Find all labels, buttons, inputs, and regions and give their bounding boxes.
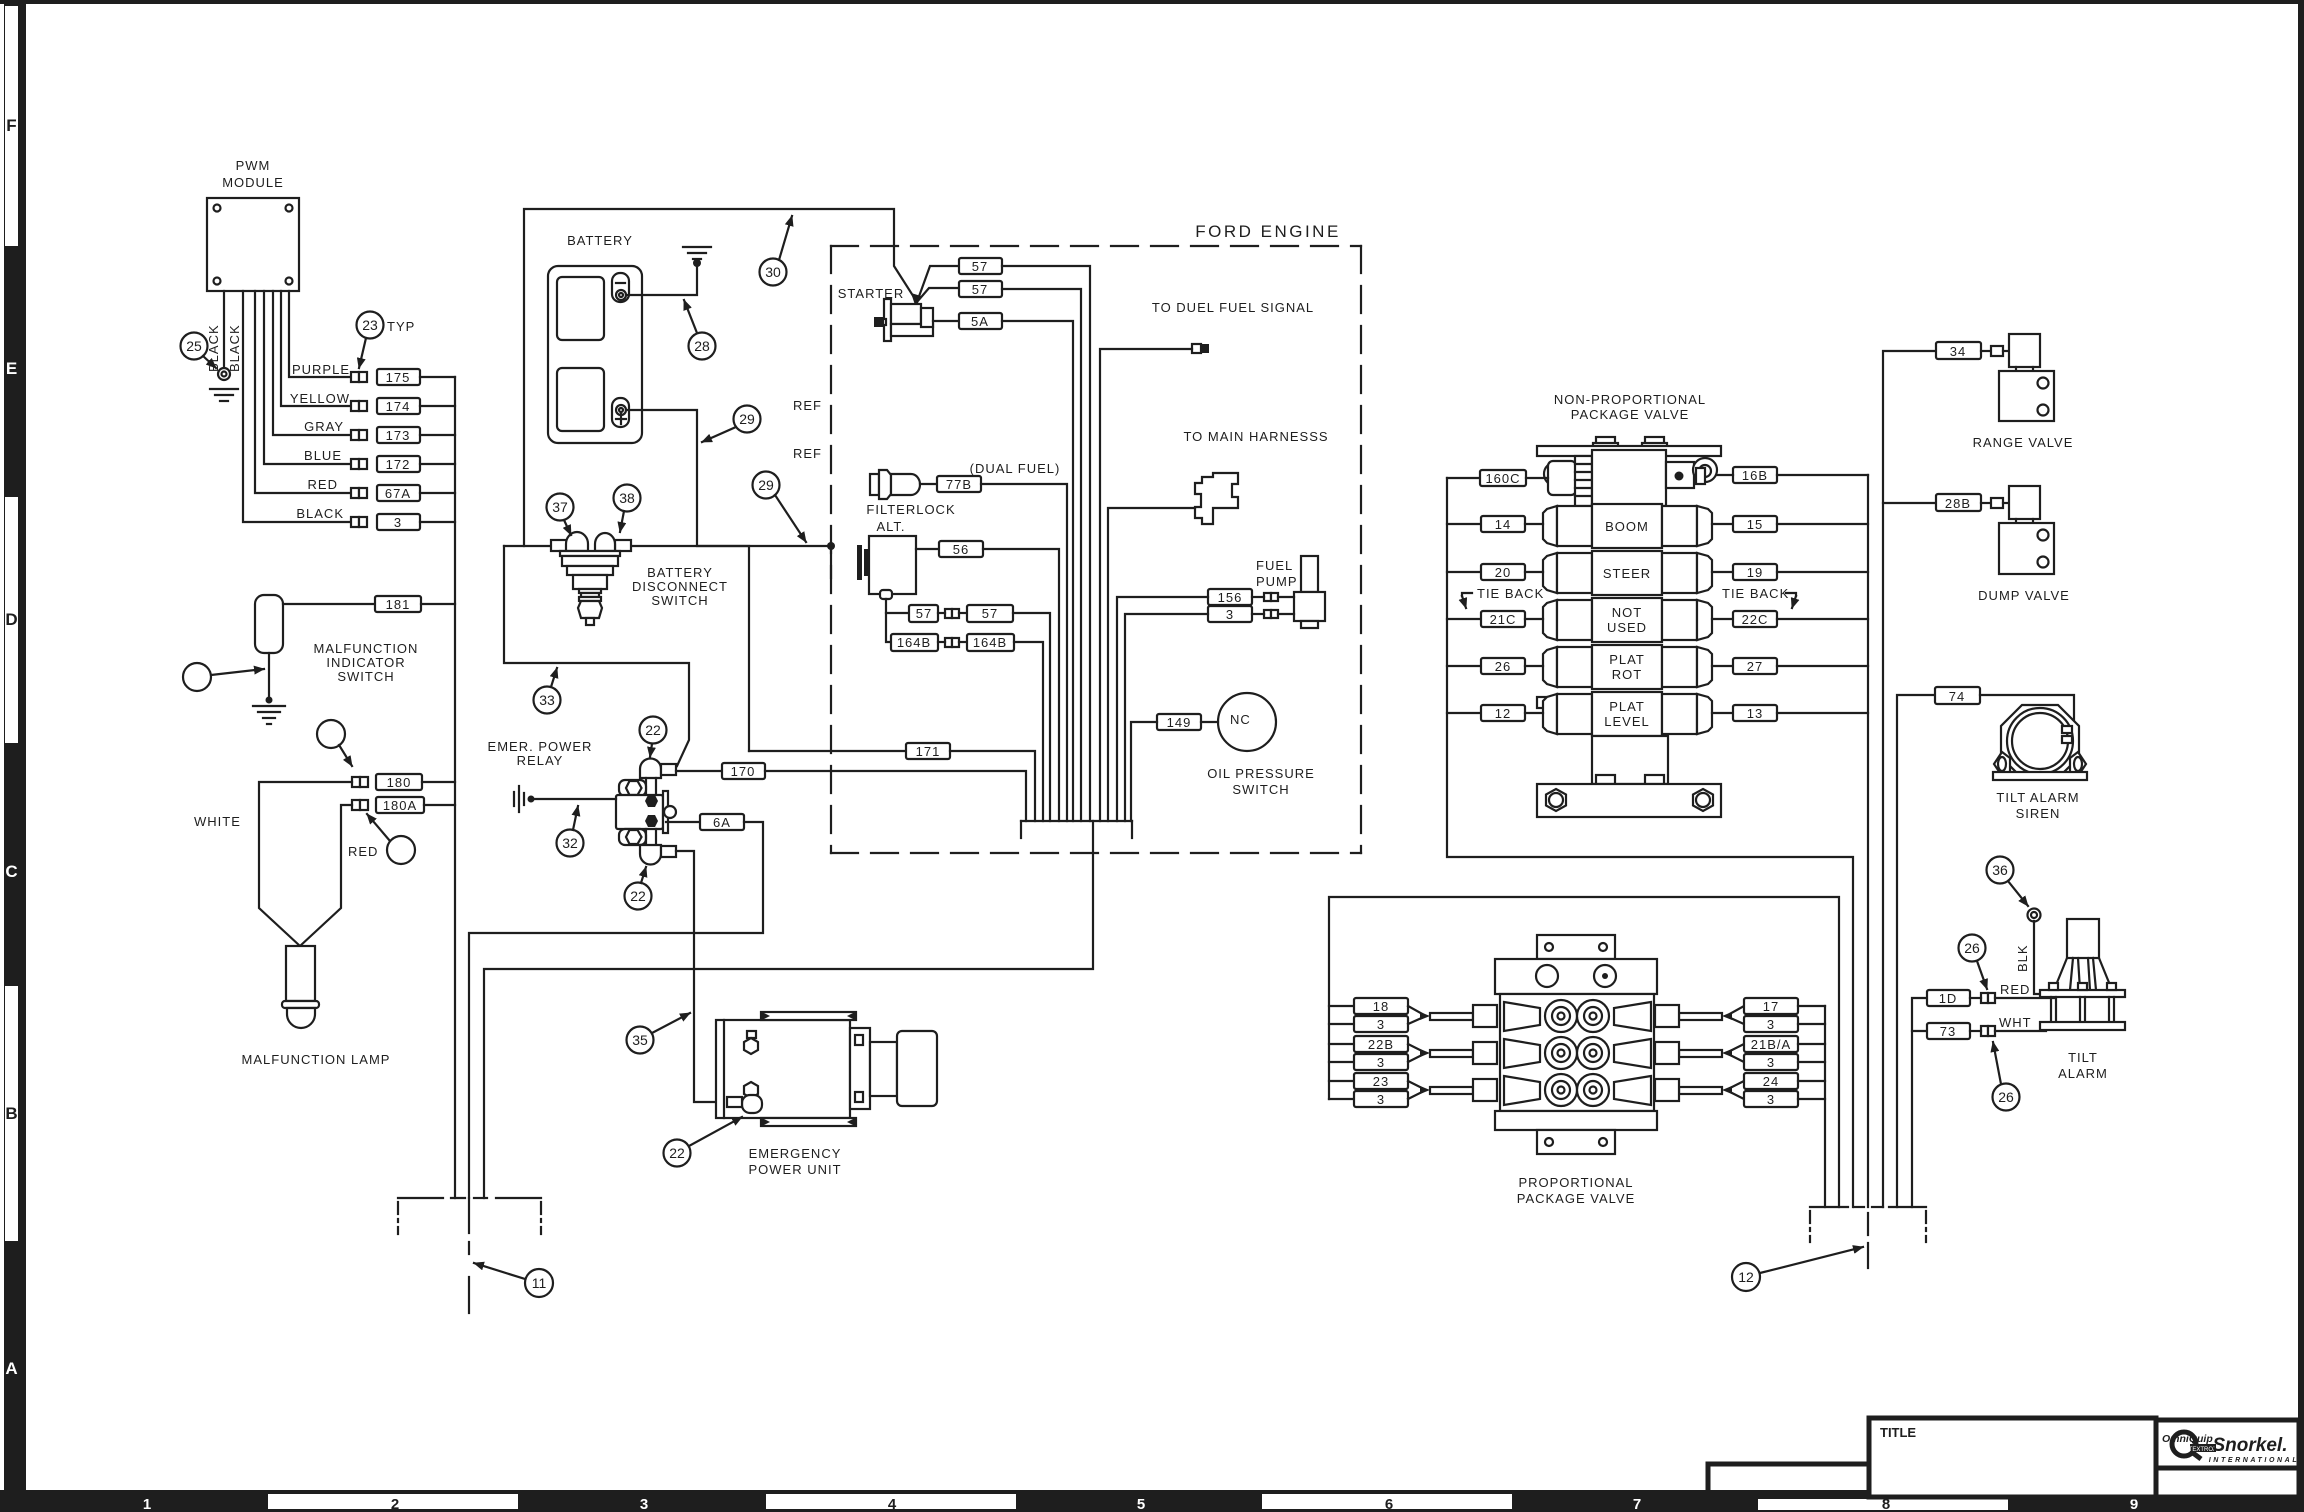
- svg-text:3: 3: [1767, 1055, 1775, 1070]
- svg-text:38: 38: [619, 490, 635, 506]
- wire 28B from rail: [1883, 502, 1936, 504]
- svg-text:36: 36: [1992, 862, 2008, 878]
- title block: [1708, 1464, 1869, 1490]
- balloon 22 at power unit: [664, 1140, 691, 1167]
- svg-text:13: 13: [1747, 706, 1763, 721]
- wire harness bus vertical: [454, 377, 456, 1198]
- wire 74 rail: [1897, 695, 1935, 1207]
- wire prop right tag rail: [1824, 1006, 1826, 1207]
- svg-text:30: 30: [765, 264, 781, 280]
- svg-text:SWITCH: SWITCH: [337, 669, 394, 684]
- wire 26 from rail: [1447, 665, 1481, 667]
- wire tag 3 c: [1329, 1098, 1354, 1100]
- wire tag 27: [1733, 658, 1777, 674]
- engine harness comb connector: [1021, 821, 1132, 838]
- svg-text:3: 3: [394, 515, 402, 530]
- splice connector on wire 172: [351, 459, 367, 469]
- wire tag 181: [375, 596, 421, 612]
- svg-text:22: 22: [630, 888, 646, 904]
- tilt alarm sensor B1: [2040, 919, 2125, 1030]
- svg-text:ALARM: ALARM: [2058, 1066, 2108, 1081]
- svg-text:(DUAL FUEL): (DUAL FUEL): [970, 461, 1061, 476]
- svg-text:BLUE: BLUE: [304, 448, 342, 463]
- wire 180A to harness bus: [424, 804, 455, 806]
- svg-text:TYP: TYP: [387, 319, 415, 334]
- splice connector 73: [1981, 1026, 1995, 1036]
- svg-text:181: 181: [386, 597, 411, 612]
- balloon 22 upper: [640, 717, 667, 744]
- dump valve L2: [1991, 486, 2054, 574]
- wire tag 3 e: [1744, 1054, 1798, 1070]
- wire PWM yellow lead to tag 174: [281, 291, 351, 406]
- wire starter to tag 5A: [933, 320, 959, 322]
- battery negative terminal: [612, 273, 629, 302]
- balloon 11: [525, 1269, 553, 1297]
- wire tag 74: [1935, 687, 1980, 704]
- balloon 29 upper: [734, 406, 761, 433]
- svg-text:BLK: BLK: [2015, 944, 2030, 972]
- wire tag 57 first: [959, 258, 1002, 274]
- wire 5A to harness: [1002, 321, 1073, 821]
- svg-text:DUMP VALVE: DUMP VALVE: [1978, 588, 2070, 603]
- svg-text:35: 35: [632, 1032, 648, 1048]
- wire 27 to right rail: [1777, 665, 1868, 667]
- balloon 29 lower: [753, 472, 780, 499]
- wire 180 to malfunction lamp: [259, 782, 352, 946]
- wire valve to 19: [1712, 571, 1733, 573]
- svg-text:RELAY: RELAY: [517, 753, 564, 768]
- wire disconnect switch left tab feed: [504, 545, 551, 547]
- svg-text:171: 171: [916, 744, 941, 759]
- wire PWM black ground lead: [223, 291, 225, 368]
- svg-text:67A: 67A: [385, 486, 411, 501]
- splice connector on wire 67A: [351, 488, 367, 498]
- non-prop valve section PLAT LEVEL: [1537, 692, 1712, 736]
- svg-text:3: 3: [1226, 607, 1234, 622]
- splice connector 164B pair: [945, 638, 959, 647]
- wire tag 56: [939, 541, 983, 557]
- wire 171 to harness: [950, 751, 1035, 821]
- svg-text:21B/A: 21B/A: [1751, 1037, 1791, 1052]
- wire alternator to 56: [916, 548, 939, 550]
- node REF junction on engine boundary: [827, 542, 835, 550]
- splice connector on wire 173: [351, 430, 367, 440]
- wire BLK to tilt alarm: [2034, 921, 2046, 994]
- wire tag 14: [1481, 516, 1525, 532]
- wire 160C from left rail: [1447, 477, 1480, 479]
- svg-text:26: 26: [1495, 659, 1511, 674]
- wire 181 to harness bus: [421, 603, 455, 605]
- svg-text:57: 57: [916, 606, 932, 621]
- wire 15 to right rail: [1777, 523, 1868, 525]
- balloon 33: [534, 687, 561, 714]
- balloon 35: [627, 1027, 654, 1054]
- wire tag 67A: [377, 485, 420, 501]
- svg-text:57: 57: [982, 606, 998, 621]
- svg-text:28B: 28B: [1945, 496, 1971, 511]
- wire valve to 15: [1712, 523, 1733, 525]
- wire 21C from rail: [1447, 618, 1481, 620]
- wire tag 156: [1208, 589, 1252, 605]
- FRAME: [0, 0, 2304, 4]
- wire prop valve top loop: [1329, 897, 1839, 1207]
- wire 26 to valve: [1525, 665, 1543, 667]
- svg-text:OIL PRESSURE: OIL PRESSURE: [1207, 766, 1315, 781]
- svg-text:180A: 180A: [383, 798, 417, 813]
- wire 156 to harness: [1117, 597, 1208, 821]
- svg-text:TIE BACK: TIE BACK: [1477, 586, 1544, 601]
- wire 13 to right rail: [1777, 712, 1868, 714]
- wire tag 13: [1733, 705, 1777, 721]
- svg-text:TILT ALARM: TILT ALARM: [1996, 790, 2079, 805]
- wire tag 57 second: [959, 281, 1002, 297]
- wire 74 to siren: [1980, 695, 2074, 731]
- svg-text:24: 24: [1763, 1074, 1779, 1089]
- balloon 22 mid: [625, 883, 652, 910]
- svg-text:1: 1: [143, 1496, 151, 1512]
- wire tag 26: [1481, 658, 1525, 674]
- splice connector on wire 180: [352, 777, 368, 787]
- svg-text:73: 73: [1940, 1024, 1956, 1039]
- wire 34 feed rail: [1883, 351, 1936, 1207]
- svg-text:RED: RED: [348, 844, 378, 859]
- wire tag 160C: [1480, 470, 1526, 486]
- wire 14 from rail: [1447, 523, 1481, 525]
- balloon 26 upper: [1959, 935, 1986, 962]
- svg-text:ALT.: ALT.: [876, 519, 905, 534]
- svg-text:BLACK: BLACK: [296, 506, 344, 521]
- svg-text:5: 5: [1137, 1496, 1145, 1512]
- svg-text:4: 4: [888, 1496, 897, 1512]
- svg-text:22: 22: [669, 1145, 685, 1161]
- wire tag 3: [377, 514, 420, 530]
- battery BT1: [548, 266, 642, 443]
- wire tag 172: [377, 456, 420, 472]
- svg-text:27: 27: [1747, 659, 1763, 674]
- wire 57 pair to harness: [1013, 613, 1050, 821]
- wire PWM gray lead to tag 173: [273, 291, 351, 435]
- prop valve right plug arrows: [1655, 1005, 1744, 1101]
- non-prop valve section STEER: [1543, 551, 1712, 595]
- wire tag 19: [1733, 564, 1777, 580]
- malfunction lamp DS1: [282, 946, 319, 1028]
- ring terminal at PWM ground: [218, 368, 230, 380]
- svg-text:MODULE: MODULE: [222, 175, 284, 190]
- svg-text:29: 29: [758, 477, 774, 493]
- svg-text:3: 3: [1767, 1017, 1775, 1032]
- svg-text:160C: 160C: [1485, 471, 1520, 486]
- wire 171 feed: [749, 750, 906, 752]
- wire relay ground: [531, 798, 616, 800]
- svg-text:POWER UNIT: POWER UNIT: [748, 1162, 841, 1177]
- svg-text:19: 19: [1747, 565, 1763, 580]
- svg-text:BATTERY: BATTERY: [647, 565, 713, 580]
- wire 3 to harness bus: [420, 521, 455, 523]
- wire 67A to harness bus: [420, 492, 455, 494]
- sheet connector boundary lower right: [1810, 1207, 1926, 1268]
- wire tag 22B: [1329, 1043, 1354, 1045]
- svg-text:23: 23: [362, 317, 378, 333]
- svg-text:LEVEL: LEVEL: [1604, 714, 1649, 729]
- svg-text:149: 149: [1167, 715, 1192, 730]
- wire 149 to harness: [1131, 722, 1157, 821]
- svg-text:172: 172: [386, 457, 411, 472]
- oil pressure switch S3: [1218, 693, 1276, 751]
- wire 175 to harness bus: [420, 376, 455, 378]
- wire 180 to harness bus: [422, 781, 455, 783]
- wire alternator tab to 164B pair: [886, 613, 891, 642]
- svg-text:SIREN: SIREN: [2016, 806, 2061, 821]
- wire tag 23: [1329, 1080, 1354, 1082]
- wire tag 170: [722, 763, 765, 779]
- svg-text:SWITCH: SWITCH: [651, 593, 708, 608]
- PWM module U1: [207, 158, 299, 291]
- balloon 28: [689, 333, 716, 360]
- wire 56 to harness: [983, 549, 1059, 821]
- wire tag 3 f: [1744, 1091, 1798, 1107]
- svg-text:PLAT: PLAT: [1609, 699, 1645, 714]
- wire 21C to valve: [1525, 618, 1543, 620]
- filterlock FL1: [870, 470, 920, 499]
- node battery ground dot: [693, 259, 701, 267]
- Ford engine dashed enclosure: [831, 246, 1361, 853]
- svg-text:EMERGENCY: EMERGENCY: [749, 1146, 842, 1161]
- wire disconnect right tab to oil pressure branch: [631, 546, 749, 751]
- splice connector 1D: [1981, 993, 1995, 1003]
- wire 28B to dump valve: [1981, 502, 1991, 504]
- wire tag 57 fourth: [967, 605, 1013, 622]
- splice connector on wire 175: [351, 372, 367, 382]
- svg-text:NON-PROPORTIONAL: NON-PROPORTIONAL: [1554, 392, 1706, 407]
- svg-text:34: 34: [1950, 344, 1966, 359]
- non-prop valve section NOT USED: [1543, 598, 1712, 642]
- svg-text:SWITCH: SWITCH: [1232, 782, 1289, 797]
- wire tag 21B/A: [1744, 1036, 1798, 1052]
- wire 180A to malfunction lamp: [300, 805, 352, 946]
- svg-text:170: 170: [731, 764, 756, 779]
- wire tag 73: [1927, 1023, 1970, 1039]
- svg-text:164B: 164B: [973, 635, 1007, 650]
- svg-text:22C: 22C: [1742, 612, 1769, 627]
- wire tag 34: [1936, 342, 1981, 359]
- wire 57 second to harness: [1002, 289, 1081, 821]
- wire valve to 16B: [1717, 474, 1733, 476]
- non-proportional valve top mounting plate: [1537, 437, 1721, 456]
- svg-text:Snorkel.: Snorkel.: [2213, 1435, 2288, 1456]
- wire 22C to right rail: [1777, 618, 1868, 620]
- wire non-prop left rail: [1447, 478, 1853, 1207]
- wire to main harness: [1108, 508, 1195, 821]
- wire 20 from rail: [1447, 571, 1481, 573]
- wire 20 to valve: [1525, 571, 1543, 573]
- svg-text:FILTERLOCK: FILTERLOCK: [866, 502, 955, 517]
- svg-text:37: 37: [552, 499, 568, 515]
- splice connector on wire 3: [351, 517, 367, 527]
- svg-text:USED: USED: [1607, 620, 1647, 635]
- svg-text:ROT: ROT: [1612, 667, 1642, 682]
- starter M2: [874, 299, 933, 341]
- wire RED to tilt alarm: [1995, 997, 2055, 999]
- svg-text:INTERNATIONAL: INTERNATIONAL: [2209, 1457, 2299, 1464]
- wire 1D rail: [1912, 998, 1927, 1207]
- svg-text:RANGE VALVE: RANGE VALVE: [1973, 435, 2074, 450]
- wire 57 first to harness: [1002, 266, 1090, 821]
- svg-text:7: 7: [1633, 1496, 1641, 1512]
- svg-text:REF: REF: [793, 398, 822, 413]
- wire 12 from rail: [1447, 712, 1481, 714]
- svg-text:A: A: [5, 1359, 17, 1378]
- wire 12 to valve: [1525, 712, 1543, 714]
- svg-text:28: 28: [694, 338, 710, 354]
- svg-text:3: 3: [1377, 1055, 1385, 1070]
- wire tag 77B: [937, 476, 981, 492]
- svg-text:5A: 5A: [971, 314, 989, 329]
- wire tag 180A: [376, 797, 424, 813]
- svg-text:6A: 6A: [713, 815, 731, 830]
- svg-text:PACKAGE VALVE: PACKAGE VALVE: [1517, 1191, 1636, 1206]
- wire 14 to valve: [1525, 523, 1543, 525]
- svg-text:29: 29: [739, 411, 755, 427]
- svg-text:REF: REF: [793, 446, 822, 461]
- svg-text:6: 6: [1385, 1496, 1393, 1512]
- wire relay lower to emergency power unit: [676, 851, 727, 1102]
- svg-text:3: 3: [640, 1496, 648, 1512]
- svg-text:22B: 22B: [1368, 1037, 1394, 1052]
- wire duel fuel signal: [1100, 349, 1192, 821]
- non-prop valve section PLAT ROT: [1543, 645, 1712, 689]
- svg-text:18: 18: [1373, 999, 1389, 1014]
- balloon at malfunction switch: [183, 663, 211, 691]
- non-proportional valve solenoid head assembly: [1544, 450, 1717, 506]
- svg-text:DISCONNECT: DISCONNECT: [632, 579, 728, 594]
- wire non-prop right rail: [1867, 475, 1869, 1207]
- wire 160C to valve: [1526, 477, 1548, 479]
- svg-text:156: 156: [1218, 590, 1243, 605]
- svg-text:GRAY: GRAY: [304, 419, 344, 434]
- wire 6A loop to sheet connector: [469, 822, 763, 1198]
- svg-text:3: 3: [1377, 1092, 1385, 1107]
- wire 173 to harness bus: [420, 434, 455, 436]
- wire 3 to harness: [1125, 614, 1208, 821]
- wire 77B to harness: [981, 484, 1067, 821]
- splice connector on wire 174: [351, 401, 367, 411]
- svg-text:STARTER: STARTER: [838, 286, 904, 301]
- ring terminal tilt alarm black lead: [2028, 909, 2041, 922]
- wire tag 12: [1481, 705, 1525, 721]
- balloon 23 TYP: [357, 312, 384, 339]
- wire tag 3 b: [1329, 1061, 1354, 1063]
- wire relay output 170: [676, 770, 722, 772]
- svg-text:MALFUNCTION LAMP: MALFUNCTION LAMP: [242, 1052, 391, 1067]
- splice connector 156: [1264, 593, 1278, 601]
- wire 172 to harness bus: [420, 463, 455, 465]
- svg-text:BATTERY: BATTERY: [567, 233, 633, 248]
- wire 16B to right rail: [1777, 474, 1868, 476]
- svg-text:PURPLE: PURPLE: [292, 362, 350, 377]
- balloon 30: [760, 259, 787, 286]
- malfunction indicator switch S2: [255, 595, 283, 653]
- svg-text:WHITE: WHITE: [194, 814, 241, 829]
- svg-text:17: 17: [1763, 999, 1779, 1014]
- svg-text:173: 173: [386, 428, 411, 443]
- svg-text:TO MAIN HARNESSS: TO MAIN HARNESSS: [1183, 429, 1328, 444]
- ground at battery negative: [683, 247, 711, 259]
- svg-text:C: C: [5, 862, 17, 881]
- svg-text:BOOM: BOOM: [1605, 519, 1649, 534]
- splice connector on wire 180A: [352, 800, 368, 810]
- svg-text:D: D: [5, 610, 17, 629]
- wire tag 180: [376, 774, 422, 790]
- wire battery cable loop to starter: [524, 209, 917, 546]
- balloon at 180A red lead: [387, 836, 415, 864]
- svg-text:56: 56: [953, 542, 969, 557]
- wire tag 164B first: [891, 634, 938, 651]
- svg-text:164B: 164B: [897, 635, 931, 650]
- wire starter to tag 57 second: [917, 288, 959, 302]
- balloon 12: [1732, 1263, 1760, 1291]
- splice connector 57 pair: [945, 609, 959, 618]
- wire alternator tab to 57 pair: [886, 599, 909, 613]
- svg-text:26: 26: [1998, 1089, 2014, 1105]
- node malfunction ground dot: [266, 697, 273, 704]
- wire tag 57 third: [909, 605, 938, 622]
- wire tag 21C: [1481, 611, 1525, 627]
- sheet connector boundary lower left: [398, 1198, 541, 1313]
- wire valve to 22C: [1712, 618, 1733, 620]
- ground below PWM module: [210, 389, 238, 401]
- svg-text:PLAT: PLAT: [1609, 652, 1645, 667]
- wire tag 3 fuel: [1208, 606, 1252, 622]
- wire PWM purple lead to tag 175: [289, 291, 351, 377]
- wire emergency relay feed from disconnect: [504, 546, 689, 766]
- non-prop valve bottom column: [1592, 736, 1668, 784]
- balloon 25: [181, 333, 208, 360]
- emergency power relay K1: [616, 759, 676, 865]
- svg-text:2: 2: [391, 1496, 399, 1512]
- svg-text:NC: NC: [1230, 712, 1251, 727]
- wire tag 173: [377, 427, 420, 443]
- svg-text:77B: 77B: [946, 477, 972, 492]
- wire tag 175: [377, 369, 420, 385]
- wire relay to 6A: [666, 821, 700, 823]
- wire tag 20: [1481, 564, 1525, 580]
- wire malfunction switch to tag 181: [283, 603, 375, 605]
- svg-text:E: E: [6, 359, 17, 378]
- wire tag 149: [1157, 714, 1201, 730]
- svg-text:22: 22: [645, 722, 661, 738]
- wire 34 to range valve: [1981, 350, 1991, 352]
- emergency power unit M1: [716, 1012, 937, 1126]
- wire tag 5A: [959, 313, 1002, 329]
- svg-text:TIE BACK: TIE BACK: [1722, 586, 1789, 601]
- svg-text:57: 57: [972, 282, 988, 297]
- svg-text:175: 175: [386, 370, 411, 385]
- balloon 32: [557, 830, 584, 857]
- wire tag 1D: [1927, 990, 1970, 1006]
- wire valve to 27: [1712, 665, 1733, 667]
- svg-text:RED: RED: [308, 477, 338, 492]
- svg-text:B: B: [5, 1104, 17, 1123]
- wire tag 164B second: [967, 634, 1014, 651]
- svg-text:12: 12: [1495, 706, 1511, 721]
- svg-text:STEER: STEER: [1603, 566, 1651, 581]
- svg-text:YELLOW: YELLOW: [290, 391, 350, 406]
- svg-text:74: 74: [1949, 689, 1965, 704]
- wire center harness return: [484, 821, 1093, 1198]
- battery positive terminal: [612, 398, 629, 427]
- wire battery negative to ground: [626, 263, 697, 295]
- svg-text:11: 11: [532, 1275, 547, 1291]
